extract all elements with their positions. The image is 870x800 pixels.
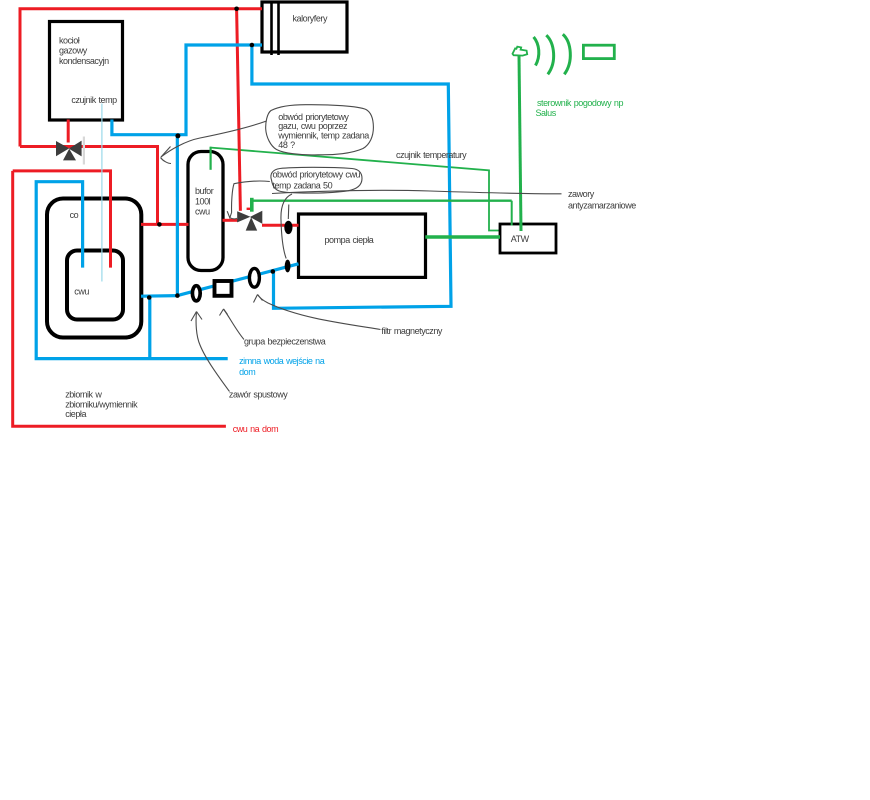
green wire: thick riser at valve2 xyxy=(250,198,254,212)
svg-text:kaloryfery: kaloryfery xyxy=(293,13,328,23)
light blue sensor line from boiler czujnik temp to cwu tank xyxy=(101,104,103,282)
red pipe: tank to bufor horizontal xyxy=(141,223,189,226)
svg-text:czujnik temp: czujnik temp xyxy=(71,95,117,105)
blue pipe: branch down from junction to cold water node xyxy=(176,134,179,296)
blue pipe: tank to node horizontal xyxy=(141,294,177,298)
svg-text:czujnik temperatury: czujnik temperatury xyxy=(396,150,467,160)
svg-text:cwu: cwu xyxy=(195,207,210,217)
red pipe: drop from radiator junction to bufor valve xyxy=(237,9,241,211)
svg-text:kondensacyjn: kondensacyjn xyxy=(59,56,109,66)
tank inner: cwu xyxy=(67,251,123,320)
svg-text:bufor: bufor xyxy=(195,186,214,196)
boiler box: kociol gazowy kondensacyjn xyxy=(50,22,123,121)
green wire: czujnik temperatury diagonal from bufor to ATW xyxy=(210,148,500,231)
speech bubble 1: obwod priorytetowy gazu xyxy=(266,105,374,155)
svg-text:zawory: zawory xyxy=(568,189,595,199)
svg-text:dom: dom xyxy=(239,367,255,377)
green wire: antenna pole into ATW xyxy=(519,55,521,231)
heat pump box: pompa ciepla xyxy=(299,214,426,277)
blue pipe: big loop radiator junction right and around heat pump xyxy=(252,45,451,308)
junction dot red tank line xyxy=(157,222,162,227)
red pipe: cwu na dom loop left and bottom xyxy=(13,171,226,426)
blue pipe: drop to zimna woda line xyxy=(148,297,151,359)
pump ellipse on blue diagonal at heat pump xyxy=(285,260,291,273)
green wire: heat pump to ATW thick xyxy=(425,235,500,238)
pointer from zawor spustowy text to ellipse xyxy=(196,312,229,392)
antenna wave arc 3 xyxy=(563,34,571,74)
antenna wave arc 2 xyxy=(546,35,553,74)
speech bubble 2: obwod priorytetowy cwu xyxy=(271,167,362,193)
red pipe: valve2 to heat pump xyxy=(262,224,299,227)
pointer from bubble1 to red corner xyxy=(161,121,267,157)
blue pipe: diagonal cold feed to heat pump xyxy=(177,264,298,296)
wavy pointer line to zawory antyzamarzaniowe xyxy=(272,190,562,193)
green wire: bufor temperature sensor drop xyxy=(210,147,212,170)
antenna wave arc 1 xyxy=(534,37,539,66)
three-way valve 1 at boiler xyxy=(56,141,82,161)
pump ellipse on red pipe at heat pump xyxy=(284,221,292,234)
pointer from filtr magnetyczny text to ellipse xyxy=(258,295,381,330)
green wire: drop into ATW top xyxy=(511,201,513,226)
svg-text:ciepła: ciepła xyxy=(65,409,86,419)
svg-text:gazowy: gazowy xyxy=(59,46,88,56)
svg-text:wymiennik, temp zadana: wymiennik, temp zadana xyxy=(277,131,369,141)
svg-text:pompa ciepła: pompa ciepła xyxy=(325,235,374,245)
pointer from bubble2 to red pipe at valve2 xyxy=(232,181,270,212)
receiver rectangle xyxy=(583,45,614,58)
svg-text:antyzamarzaniowe: antyzamarzaniowe xyxy=(568,201,636,211)
svg-text:filtr magnetyczny: filtr magnetyczny xyxy=(381,326,443,336)
red pipe: boiler bottom stub xyxy=(67,120,70,143)
svg-text:grupa bezpieczenstwa: grupa bezpieczenstwa xyxy=(244,337,326,347)
antenna head xyxy=(513,47,528,56)
svg-text:48 ?: 48 ? xyxy=(278,140,295,150)
svg-text:obwód priorytetowy cwu: obwód priorytetowy cwu xyxy=(273,169,361,179)
junction dot zimna drop xyxy=(147,295,152,300)
svg-text:cwu na dom: cwu na dom xyxy=(233,424,278,434)
pointer from grupa text to square xyxy=(224,309,245,340)
svg-text:Salus: Salus xyxy=(536,108,557,118)
zawor spustowy ellipse xyxy=(192,286,200,301)
junction dot cold node xyxy=(175,293,180,298)
grupa bezpieczenstwa square xyxy=(215,281,232,296)
buffer tank: bufor 100l cwu xyxy=(188,152,223,271)
pointer from bubble2 to pump ellipses xyxy=(281,194,292,259)
tank outer: zbiornik co xyxy=(47,199,141,338)
svg-text:zimna woda wejście na: zimna woda wejście na xyxy=(239,356,325,366)
svg-text:100l: 100l xyxy=(195,196,211,206)
radiator box: kaloryfery xyxy=(262,1,347,55)
three-way valve 2 at bufor xyxy=(237,211,262,231)
svg-text:ATW: ATW xyxy=(511,234,530,244)
svg-text:sterownik pogodowy np: sterownik pogodowy np xyxy=(537,98,623,108)
svg-text:cwu: cwu xyxy=(74,287,89,297)
red pipe: small tick left of green riser xyxy=(247,208,250,210)
blue pipe: boiler bottom to radiator return xyxy=(112,45,262,135)
red pipe: bufor to valve2 stub xyxy=(223,219,239,222)
blue pipe: left loop into cwu tank and zimna woda bottom line xyxy=(36,182,228,359)
filtr magnetyczny ellipse xyxy=(249,268,259,287)
svg-text:co: co xyxy=(70,210,79,220)
junction dot radiator return xyxy=(250,43,255,48)
gray bar beside valve 1 xyxy=(83,137,85,165)
junction dot radiator top xyxy=(234,7,239,12)
svg-text:zbiornik w: zbiornik w xyxy=(65,390,102,400)
red pipe: valve horizontal to down corner x157 xyxy=(20,147,158,225)
junction dot boiler return branch xyxy=(175,133,180,138)
junction dot blue diagonal xyxy=(271,269,276,274)
svg-text:temp zadana 50: temp zadana 50 xyxy=(273,181,333,191)
ATW box xyxy=(500,224,556,253)
svg-text:kocioł: kocioł xyxy=(59,36,80,46)
red pipe: into cwu tank xyxy=(13,171,111,268)
red pipe: top supply loop from boiler valve to radiator xyxy=(20,9,262,147)
green wire: horizontal to ATW drop xyxy=(252,199,512,201)
svg-text:zawór spustowy: zawór spustowy xyxy=(229,390,288,400)
